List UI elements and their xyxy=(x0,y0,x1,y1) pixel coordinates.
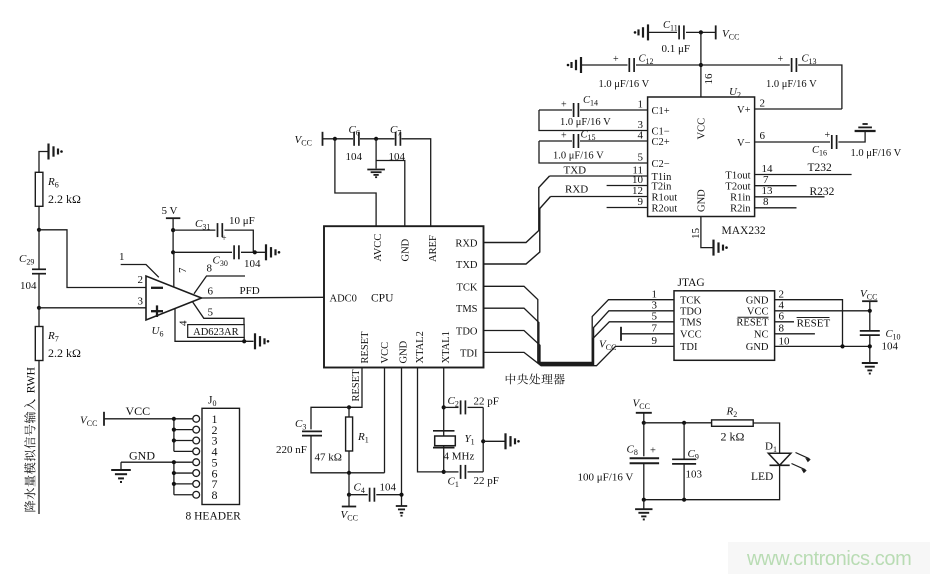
svg-text:LED: LED xyxy=(751,471,773,483)
wire TDI (CPU to JTAG) xyxy=(484,346,675,365)
svg-text:+: + xyxy=(222,233,227,243)
svg-text:4: 4 xyxy=(178,320,190,326)
node C1 left xyxy=(442,470,446,474)
ground (C10) xyxy=(862,362,878,364)
node RESET/R1 xyxy=(347,405,351,409)
MAX232 pin11 wire xyxy=(550,175,648,177)
svg-text:104: 104 xyxy=(244,258,261,270)
svg-text:R2out: R2out xyxy=(652,203,678,214)
svg-text:3: 3 xyxy=(138,296,144,308)
svg-text:C2−: C2− xyxy=(652,159,670,170)
svg-text:AVCC: AVCC xyxy=(373,234,384,262)
ground (CPU decoupling) xyxy=(367,169,385,171)
svg-text:47 kΩ: 47 kΩ xyxy=(315,452,342,464)
wire C10 to ground xyxy=(869,335,871,362)
svg-text:104: 104 xyxy=(882,341,899,353)
svg-text:TMS: TMS xyxy=(680,318,702,329)
op-amp output PFD to CPU ADC0 xyxy=(202,296,325,299)
LED D1 xyxy=(768,453,791,465)
svg-text:TDO: TDO xyxy=(680,307,702,318)
svg-text:220 nF: 220 nF xyxy=(276,444,307,456)
CPU RESET pin wire xyxy=(349,368,362,408)
svg-text:+: + xyxy=(561,99,567,110)
svg-text:9: 9 xyxy=(652,335,658,347)
ground (MAX232 pin15) xyxy=(712,240,714,256)
svg-text:AD623AR: AD623AR xyxy=(193,327,239,338)
node B (C29/R7 junction) xyxy=(37,306,41,310)
wire GND to J0 pins 5-8 xyxy=(121,461,193,463)
svg-text:2.2 kΩ: 2.2 kΩ xyxy=(48,346,81,360)
svg-text:8: 8 xyxy=(779,323,785,335)
wire C6-C7 xyxy=(360,138,395,140)
svg-text:TXD: TXD xyxy=(564,165,587,177)
MAX232 pin15 wire xyxy=(701,217,713,248)
wire RWH input xyxy=(38,361,40,515)
J0 pin circles xyxy=(193,415,200,422)
MAX232 pin12 wire xyxy=(551,196,648,198)
svg-text:GND: GND xyxy=(399,340,410,363)
node C4 left xyxy=(347,493,351,497)
wire to C4 xyxy=(348,473,350,495)
svg-text:RESET: RESET xyxy=(360,331,371,364)
node crystal ground tap xyxy=(481,439,485,443)
svg-text:0.1 μF: 0.1 μF xyxy=(662,43,691,55)
svg-text:VCC: VCC xyxy=(696,118,707,140)
wire to AVCC xyxy=(335,139,376,226)
svg-text:VCC: VCC xyxy=(126,404,151,418)
svg-text:14: 14 xyxy=(762,163,774,175)
capacitor C12 row xyxy=(580,57,582,73)
capacitor C9 xyxy=(683,423,685,459)
svg-text:15: 15 xyxy=(690,228,702,240)
MAX232 pin1 wire / capacitor C14 loop xyxy=(539,109,572,111)
svg-text:1.0 μF/16 V: 1.0 μF/16 V xyxy=(553,151,604,162)
connector J0 box xyxy=(202,408,240,504)
svg-text:8 HEADER: 8 HEADER xyxy=(186,511,242,523)
node Vcc/C8 xyxy=(642,421,646,425)
node C8 bottom xyxy=(642,498,646,502)
svg-text:104: 104 xyxy=(389,151,406,163)
svg-text:103: 103 xyxy=(686,469,703,481)
svg-text:RWH: RWH xyxy=(26,367,38,393)
svg-text:C1−: C1− xyxy=(652,127,670,138)
wire Vcc rail xyxy=(323,138,354,140)
CPU GND pin wire xyxy=(401,368,403,506)
capacitor C29 xyxy=(32,268,46,270)
svg-text:+: + xyxy=(825,130,831,141)
capacitor C31 xyxy=(173,229,215,231)
svg-text:7: 7 xyxy=(652,323,658,335)
capacitor C30 xyxy=(173,251,232,253)
svg-text:VCC: VCC xyxy=(680,330,702,341)
ground (LED circuit) xyxy=(643,500,645,509)
MAX232 pin8 stub xyxy=(755,207,797,209)
node C9 bottom xyxy=(682,498,686,502)
label RWH input (降水量模拟信号输入 RWH) xyxy=(24,367,37,511)
CPU XTAL2 pin wire xyxy=(418,368,444,472)
wire Y1 to C1 row xyxy=(443,448,445,472)
svg-text:T1out: T1out xyxy=(725,170,750,181)
svg-text:R232: R232 xyxy=(810,186,835,198)
svg-text:V−: V− xyxy=(737,138,751,149)
capacitor C13 xyxy=(791,58,793,72)
JTAG pin6 wire RESET xyxy=(775,321,794,323)
wire LED to bottom rail xyxy=(644,465,780,499)
svg-text:1: 1 xyxy=(119,251,125,263)
svg-text:6: 6 xyxy=(779,311,785,323)
svg-text:100 μF/16 V: 100 μF/16 V xyxy=(578,472,634,484)
MAX232 U2 box xyxy=(648,97,755,217)
svg-text:104: 104 xyxy=(20,280,37,292)
JTAG pin4 wire xyxy=(775,310,870,312)
svg-text:1.0 μF/16 V: 1.0 μF/16 V xyxy=(599,79,650,90)
svg-text:104: 104 xyxy=(346,151,363,163)
svg-text:5 V: 5 V xyxy=(162,205,178,217)
MAX232 pin2 wire xyxy=(755,108,842,110)
svg-text:RESET: RESET xyxy=(797,318,831,330)
svg-text:10: 10 xyxy=(779,335,791,347)
op-amp U6 xyxy=(146,276,202,320)
svg-text:104: 104 xyxy=(380,482,397,494)
label 中央处理器 xyxy=(506,374,565,385)
op-amp pin5 wire xyxy=(193,302,245,325)
label AD623AR xyxy=(188,325,245,338)
wire TMS (CPU to JTAG) xyxy=(484,308,675,363)
svg-text:1: 1 xyxy=(638,98,644,110)
svg-text:TXD: TXD xyxy=(456,260,478,271)
svg-text:9: 9 xyxy=(638,196,644,208)
capacitor C2 xyxy=(444,406,459,408)
crystal Y1 xyxy=(433,430,455,432)
resistor R1 xyxy=(348,407,350,417)
svg-text:16: 16 xyxy=(703,73,715,85)
watermark xyxy=(728,542,930,574)
svg-text:T2out: T2out xyxy=(725,181,750,192)
svg-text:TDO: TDO xyxy=(456,327,478,338)
svg-text:GND: GND xyxy=(746,342,769,353)
MAX232 pin13 wire R232 xyxy=(755,196,825,198)
CPU VCC pin wire xyxy=(384,368,386,473)
svg-text:+: + xyxy=(613,54,619,65)
capacitor C11 row xyxy=(647,24,649,40)
svg-text:8: 8 xyxy=(763,196,769,208)
svg-text:GND: GND xyxy=(696,189,707,212)
svg-text:+: + xyxy=(561,130,567,141)
svg-text:2: 2 xyxy=(760,98,766,110)
svg-text:R1out: R1out xyxy=(652,193,678,204)
node C9 top xyxy=(682,421,686,425)
svg-text:+: + xyxy=(778,54,784,65)
wire C3 to rail xyxy=(311,436,385,473)
svg-text:T2in: T2in xyxy=(652,182,673,193)
MAX232 pin10 stub xyxy=(607,185,648,187)
capacitor C4 xyxy=(349,494,368,496)
svg-text:GND: GND xyxy=(129,449,155,463)
svg-text:GND: GND xyxy=(746,295,769,306)
wire crystal right leg xyxy=(482,407,484,472)
svg-text:4 MHz: 4 MHz xyxy=(444,451,475,463)
svg-text:6: 6 xyxy=(760,130,766,142)
capacitor C6 xyxy=(353,132,355,146)
MAX232 pin7 stub xyxy=(755,185,797,187)
svg-text:1.0 μF/16 V: 1.0 μF/16 V xyxy=(851,148,902,159)
ground (top of R6) xyxy=(39,152,49,173)
svg-text:1.0 μF/16 V: 1.0 μF/16 V xyxy=(766,79,817,90)
svg-text:TMS: TMS xyxy=(456,304,478,315)
ground (op-amp pin4) xyxy=(254,333,256,349)
svg-text:8: 8 xyxy=(207,263,213,275)
svg-text:8: 8 xyxy=(212,488,218,502)
svg-text:C1+: C1+ xyxy=(652,106,670,117)
wire TXD (CPU to MAX232) xyxy=(484,197,551,265)
svg-text:RESET: RESET xyxy=(351,369,362,402)
svg-text:MAX232: MAX232 xyxy=(722,225,766,237)
capacitor C1 xyxy=(444,471,459,473)
wire VCC to J0 pins 1-4 xyxy=(104,418,193,420)
CPU U3 box xyxy=(324,226,484,367)
node C4 right xyxy=(399,493,403,497)
JTAG connector box xyxy=(674,291,775,361)
node A (R6/C29 junction) xyxy=(37,228,41,232)
svg-text:ADC0: ADC0 xyxy=(330,294,357,305)
op-amp U6 pin1 wire xyxy=(121,265,159,278)
wire Vcc to C10 xyxy=(869,301,871,331)
svg-text:1.0 μF/16 V: 1.0 μF/16 V xyxy=(560,117,611,128)
resistor R2 xyxy=(712,420,754,426)
wire TDO (CPU to JTAG) xyxy=(484,311,675,365)
Vcc supply (bottom) xyxy=(348,495,350,507)
capacitor C3 xyxy=(302,430,322,432)
svg-text:TCK: TCK xyxy=(680,295,701,306)
MAX232 pin14 wire T232 xyxy=(755,174,852,176)
MAX232 pin16 wire xyxy=(700,32,702,97)
capacitor C10 xyxy=(860,330,880,332)
resistor R7 xyxy=(35,327,43,361)
MAX232 pin9 stub xyxy=(607,207,648,209)
resistor R6 xyxy=(35,172,43,206)
svg-text:7: 7 xyxy=(177,267,189,273)
svg-text:5: 5 xyxy=(638,152,644,164)
svg-text:TDI: TDI xyxy=(460,348,478,359)
node R1 bottom xyxy=(347,471,351,475)
svg-text:TCK: TCK xyxy=(457,282,478,293)
svg-text:CPU: CPU xyxy=(371,293,394,305)
svg-text:2 kΩ: 2 kΩ xyxy=(721,430,745,444)
wire R2 to LED xyxy=(753,423,779,453)
op-amp pin8 stub xyxy=(194,276,245,294)
wire top rail xyxy=(644,422,712,424)
wire to op-amp pin2 xyxy=(39,230,146,288)
svg-text:RXD: RXD xyxy=(565,184,588,196)
wire C29 to R7 xyxy=(38,274,40,327)
JTAG pin8 stub xyxy=(775,333,815,335)
svg-text:XTAL1: XTAL1 xyxy=(441,331,452,363)
svg-text:2: 2 xyxy=(138,274,144,286)
svg-text:6: 6 xyxy=(208,286,214,298)
svg-text:T232: T232 xyxy=(808,162,833,174)
ground (J0) xyxy=(120,462,122,469)
ground (crystal) xyxy=(504,433,506,449)
svg-text:5: 5 xyxy=(652,311,658,323)
svg-text:PFD: PFD xyxy=(240,285,260,297)
ground (C30) xyxy=(265,244,267,260)
svg-text:+: + xyxy=(650,446,656,457)
wire to C3 xyxy=(311,407,349,429)
svg-text:www.cntronics.com: www.cntronics.com xyxy=(746,548,911,570)
svg-text:V+: V+ xyxy=(737,105,751,116)
LED arrows xyxy=(792,453,811,474)
capacitor C8 xyxy=(643,423,645,457)
wire to ground (C6/C7) xyxy=(375,139,377,169)
svg-text:C2+: C2+ xyxy=(652,137,670,148)
wire to AREF xyxy=(402,139,431,226)
node XTAL1/C2 xyxy=(442,405,446,409)
ground (C4/GND) xyxy=(396,505,407,507)
wire to CPU GND pin xyxy=(376,161,405,227)
svg-text:JTAG: JTAG xyxy=(678,277,705,289)
CPU XTAL1 pin wire xyxy=(443,368,445,431)
svg-text:TDI: TDI xyxy=(680,342,698,353)
svg-text:22 pF: 22 pF xyxy=(474,396,499,408)
svg-text:R1in: R1in xyxy=(730,192,751,203)
svg-text:4: 4 xyxy=(638,130,644,142)
wire RXD (CPU to MAX232) xyxy=(484,176,550,243)
JTAG pin2 wire xyxy=(775,300,843,347)
op-amp pin4 wire xyxy=(175,309,254,342)
svg-text:5: 5 xyxy=(208,306,214,318)
svg-text:NC: NC xyxy=(754,330,769,341)
svg-text:RESET: RESET xyxy=(736,318,769,329)
MAX232 pin6 wire / capacitor C16 xyxy=(755,141,830,143)
svg-text:VCC: VCC xyxy=(747,307,769,318)
wire R6 to C29 xyxy=(38,206,40,269)
svg-text:RXD: RXD xyxy=(455,239,478,250)
svg-text:22 pF: 22 pF xyxy=(474,475,499,487)
ground (C16) xyxy=(855,130,876,132)
wire TCK (CPU to JTAG) xyxy=(484,286,675,362)
wire to op-amp pin3 xyxy=(39,307,146,309)
svg-text:10 μF: 10 μF xyxy=(229,215,255,227)
svg-text:VCC: VCC xyxy=(380,342,391,364)
op-amp pin7 wire xyxy=(173,252,175,287)
svg-text:GND: GND xyxy=(400,238,411,261)
JTAG pin10 wire xyxy=(775,345,870,347)
svg-text:2.2 kΩ: 2.2 kΩ xyxy=(48,192,81,206)
capacitor C7 xyxy=(395,132,397,146)
MAX232 pin4 wire / capacitor C15 loop xyxy=(539,140,572,142)
svg-text:R2in: R2in xyxy=(730,203,751,214)
svg-text:AREF: AREF xyxy=(428,235,439,262)
svg-text:XTAL2: XTAL2 xyxy=(415,331,426,363)
